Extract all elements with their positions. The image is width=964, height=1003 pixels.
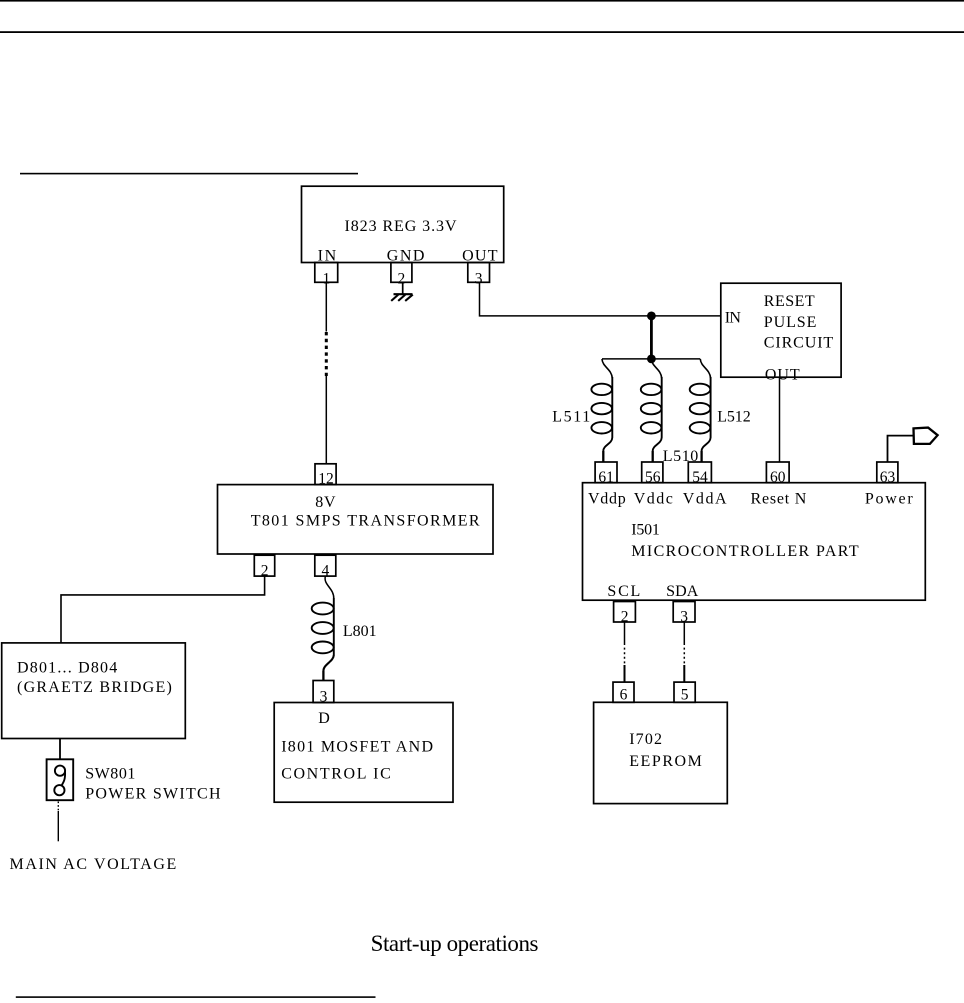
svg-text:CONTROL IC: CONTROL IC bbox=[281, 766, 391, 783]
svg-text:I501: I501 bbox=[631, 521, 660, 538]
coil bus wire bbox=[602, 358, 700, 360]
wire transformer pin2 to bridge bbox=[61, 576, 265, 643]
wire flag to pin 63 bbox=[888, 436, 914, 462]
svg-text:Start-up operations: Start-up operations bbox=[371, 931, 539, 956]
svg-text:5: 5 bbox=[681, 687, 689, 704]
transformer pin 2 box bbox=[254, 555, 274, 576]
wire bridge to switch bbox=[59, 739, 61, 760]
wire reset OUT to pin 60 bbox=[779, 377, 781, 462]
bridge D801 box bbox=[2, 643, 186, 739]
micro pin 56 box bbox=[642, 462, 663, 483]
svg-text:IN: IN bbox=[725, 309, 742, 326]
regulator pin 1 box bbox=[315, 263, 338, 283]
ground symbol bbox=[391, 294, 413, 301]
svg-text:PULSE: PULSE bbox=[764, 314, 817, 331]
svg-text:D801... D804: D801... D804 bbox=[17, 659, 117, 676]
svg-text:6: 6 bbox=[620, 687, 628, 704]
transformer pin 4 box bbox=[315, 555, 336, 576]
footer rule bbox=[16, 996, 376, 998]
svg-text:T801 SMPS TRANSFORMER: T801 SMPS TRANSFORMER bbox=[251, 512, 480, 529]
svg-text:D: D bbox=[318, 710, 330, 727]
svg-text:Vddc: Vddc bbox=[634, 490, 673, 507]
svg-text:RESET: RESET bbox=[764, 293, 815, 310]
power flag symbol bbox=[914, 428, 938, 444]
mosfet pin 3 box bbox=[313, 681, 334, 703]
microcontroller I501 box bbox=[583, 483, 926, 601]
regulator pin 2 box bbox=[391, 263, 412, 283]
svg-text:Vddp: Vddp bbox=[588, 490, 626, 507]
transformer pin 12 box bbox=[315, 464, 336, 485]
mosfet I801 box bbox=[274, 703, 453, 803]
svg-text:SW801: SW801 bbox=[85, 766, 135, 783]
inductor L510 bbox=[641, 359, 662, 462]
micro pin 3 box bbox=[673, 602, 695, 623]
svg-text:VddA: VddA bbox=[683, 490, 727, 507]
micro pin 2 box bbox=[614, 602, 636, 623]
micro pin 61 box bbox=[595, 462, 617, 483]
micro pin 60 box bbox=[766, 462, 789, 483]
svg-text:POWER SWITCH: POWER SWITCH bbox=[85, 786, 221, 803]
wire junction vertical bbox=[650, 316, 653, 359]
ground stub wire at pin 2 bbox=[402, 282, 404, 294]
wire switch to mains dotted stub bbox=[57, 802, 59, 812]
micro pin 54 box bbox=[688, 462, 711, 483]
wire pin3 to reset IN bbox=[480, 282, 721, 316]
page header rule bottom bbox=[0, 31, 964, 33]
svg-text:CIRCUIT: CIRCUIT bbox=[764, 334, 834, 351]
svg-text:3: 3 bbox=[475, 270, 483, 287]
transformer T801 box bbox=[218, 485, 494, 554]
regulator I823 box bbox=[302, 186, 504, 262]
svg-text:I801 MOSFET AND: I801 MOSFET AND bbox=[281, 738, 433, 755]
eeprom pin 5 box bbox=[674, 682, 695, 702]
svg-text:(GRAETZ BRIDGE): (GRAETZ BRIDGE) bbox=[17, 679, 172, 696]
section title underline bbox=[20, 173, 358, 175]
wire switch to mains bbox=[57, 811, 59, 841]
svg-text:I702: I702 bbox=[629, 731, 662, 748]
svg-text:Reset N: Reset N bbox=[751, 490, 807, 507]
reset pulse circuit box U-reset bbox=[721, 283, 841, 377]
wire SDA pin3 to eeprom pin5 bbox=[683, 622, 685, 682]
svg-text:8V: 8V bbox=[315, 494, 336, 511]
wire SCL pin2 to eeprom pin6 bbox=[624, 622, 626, 682]
eeprom pin 6 box bbox=[613, 682, 634, 702]
svg-text:MICROCONTROLLER PART: MICROCONTROLLER PART bbox=[631, 543, 859, 560]
micro pin 63 box bbox=[877, 462, 898, 483]
power switch SW801 bbox=[47, 759, 74, 800]
wire pin1 to pin12 solid lower bbox=[325, 376, 327, 464]
svg-text:SDA: SDA bbox=[666, 583, 699, 600]
wire pin1 to pin12 solid upper bbox=[325, 282, 327, 331]
svg-text:L801: L801 bbox=[343, 623, 377, 640]
inductor L511 bbox=[591, 359, 612, 462]
page header rule top bbox=[0, 0, 964, 2]
svg-text:L512: L512 bbox=[717, 409, 751, 426]
inductor L512 bbox=[690, 359, 711, 462]
svg-text:L511: L511 bbox=[552, 409, 590, 426]
inductor L801 bbox=[312, 576, 334, 680]
junction node dot upper bbox=[647, 312, 656, 321]
eeprom I702 box bbox=[594, 702, 728, 803]
junction node dot lower bbox=[647, 355, 656, 364]
wire pin1 broken dashed segment bbox=[325, 332, 328, 376]
svg-text:EEPROM: EEPROM bbox=[629, 753, 702, 770]
svg-text:OUT: OUT bbox=[765, 367, 800, 384]
svg-text:SCL: SCL bbox=[607, 583, 640, 600]
svg-text:I823 REG 3.3V: I823 REG 3.3V bbox=[345, 218, 457, 235]
regulator pin 3 box bbox=[468, 263, 490, 283]
svg-text:2: 2 bbox=[398, 270, 406, 287]
